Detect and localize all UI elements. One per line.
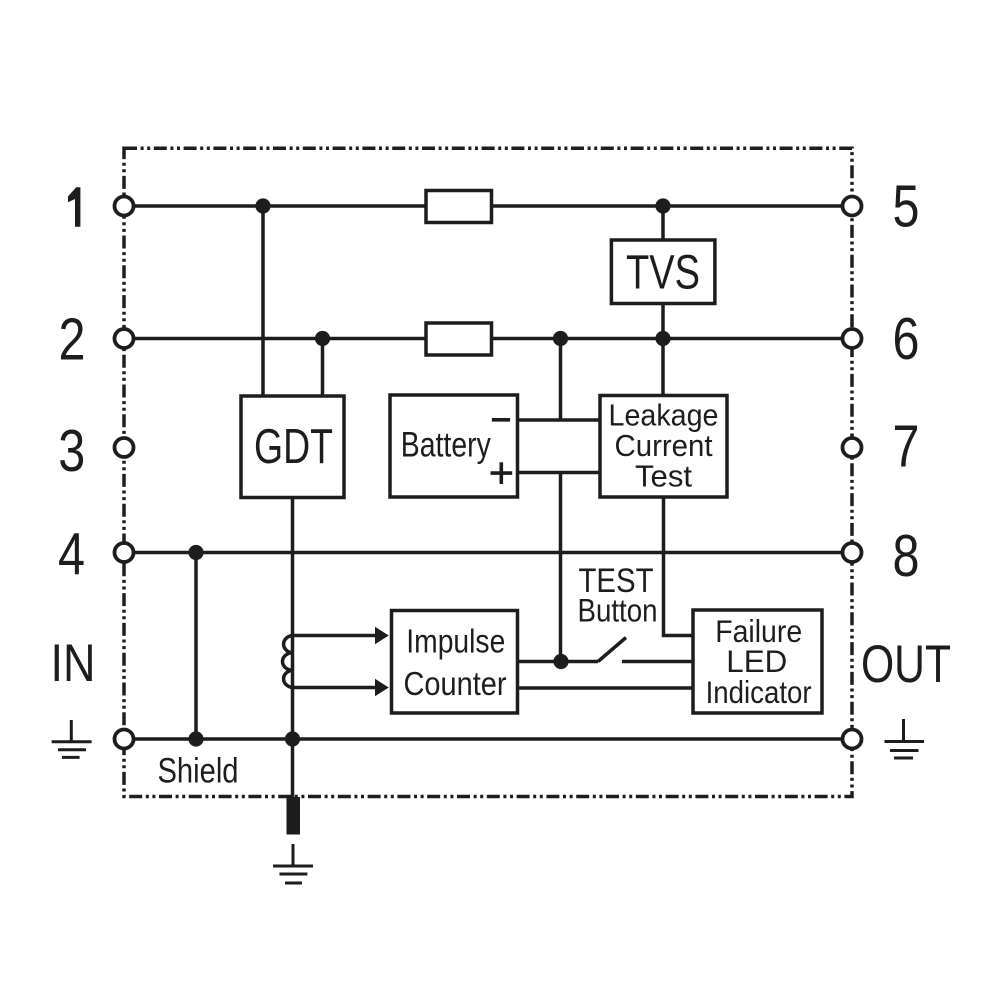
svg-text:Shield: Shield	[158, 752, 239, 791]
svg-text:7: 7	[893, 414, 920, 480]
svg-text:Button: Button	[578, 593, 658, 629]
svg-text:5: 5	[893, 174, 920, 240]
svg-text:Leakage: Leakage	[609, 399, 719, 433]
svg-text:Counter: Counter	[404, 665, 507, 702]
svg-text:IN: IN	[51, 634, 96, 693]
svg-text:2: 2	[59, 307, 86, 373]
svg-text:3: 3	[58, 418, 85, 484]
svg-text:6: 6	[893, 306, 920, 372]
svg-text:GDT: GDT	[254, 420, 333, 474]
svg-text:TVS: TVS	[626, 247, 700, 300]
svg-text:OUT: OUT	[861, 635, 951, 694]
svg-text:8: 8	[893, 523, 920, 589]
svg-text:Battery: Battery	[401, 426, 491, 465]
svg-text:Current: Current	[615, 429, 714, 463]
svg-text:Test: Test	[635, 460, 693, 494]
svg-text:Indicator: Indicator	[706, 674, 812, 710]
svg-text:4: 4	[58, 522, 85, 588]
svg-text:Impulse: Impulse	[406, 622, 505, 659]
